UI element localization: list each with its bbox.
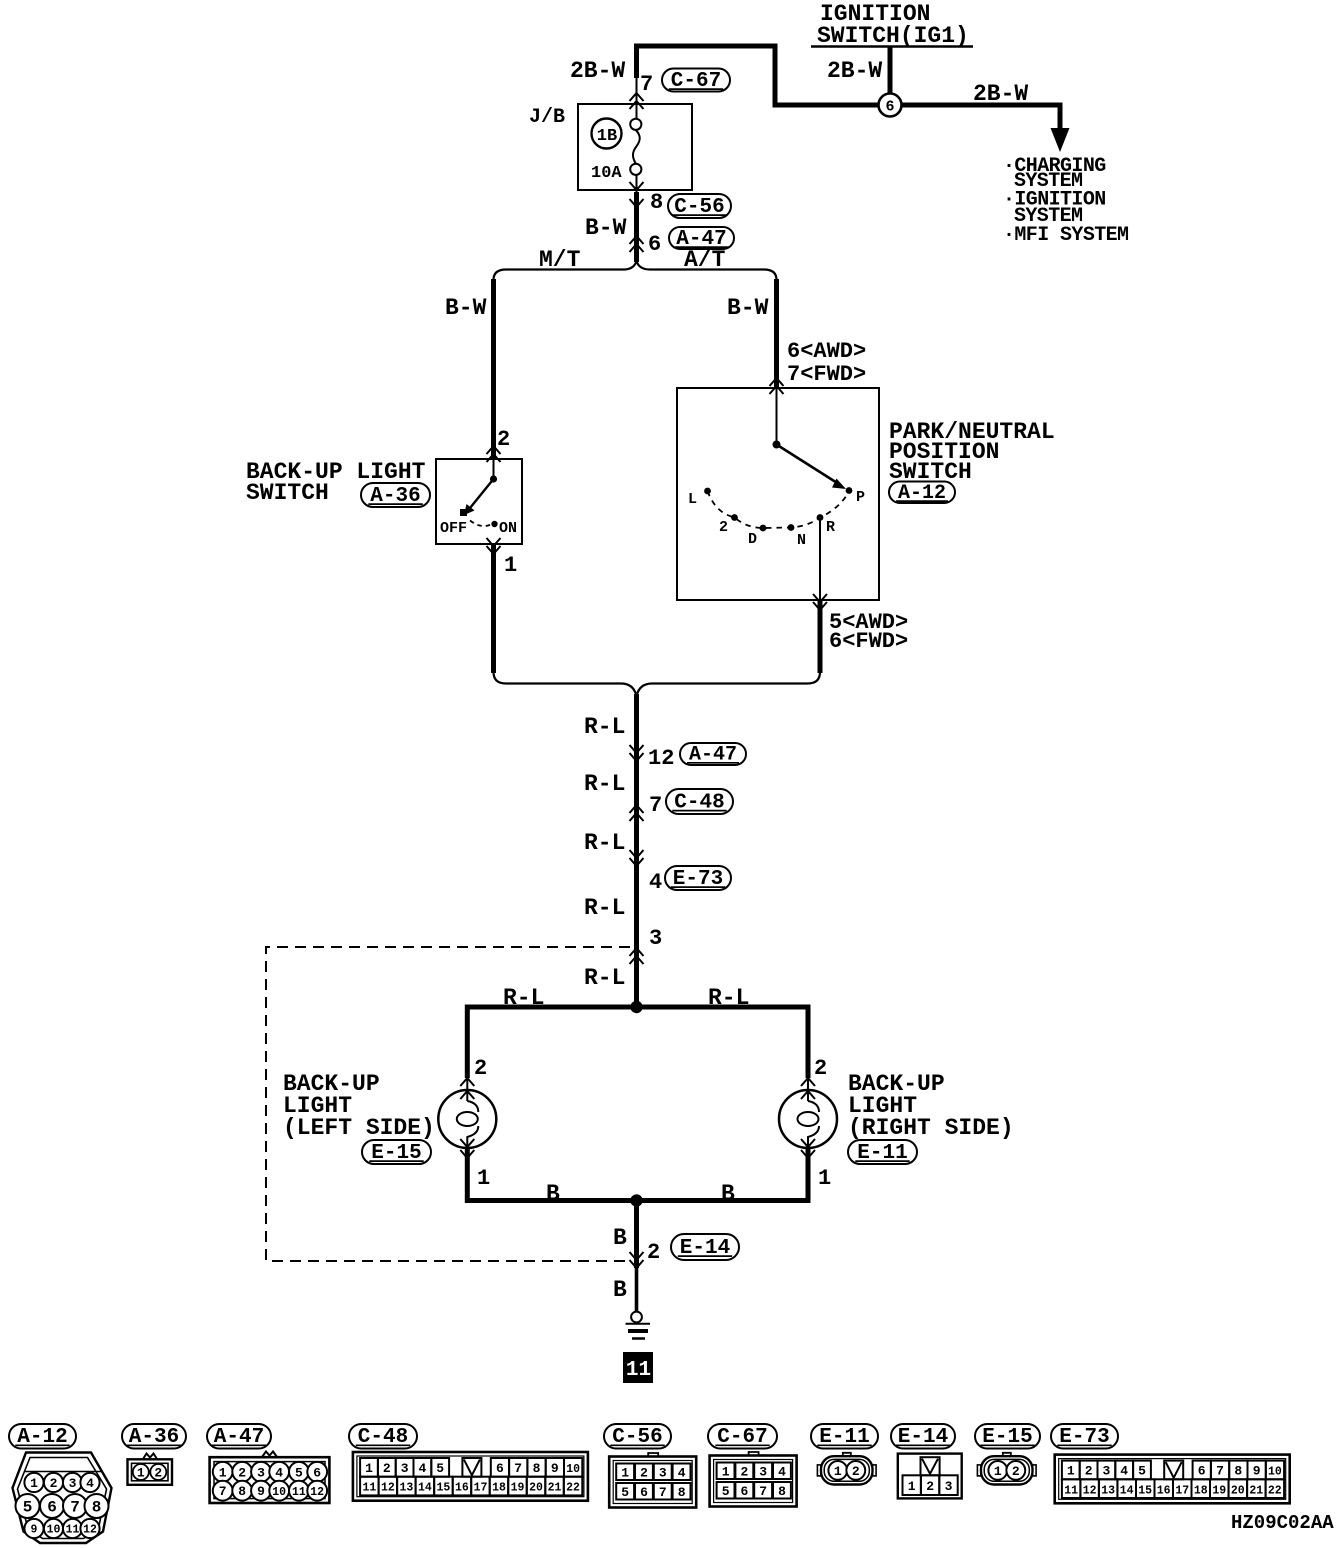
svg-text:3: 3 — [1102, 1464, 1110, 1479]
svg-text:13: 13 — [399, 1482, 413, 1495]
svg-text:7: 7 — [219, 1484, 227, 1499]
wire: node 6 left to corner, up and left to C-67 drop — [637, 46, 891, 105]
svg-text:11: 11 — [66, 1524, 80, 1537]
legend label E-11 — [811, 1424, 878, 1449]
chevrons at pin 3 joint — [630, 948, 644, 964]
legend connector E-73 (22-pin) — [1055, 1455, 1290, 1504]
chevrons entering park/neutral switch — [770, 378, 784, 394]
svg-text:1: 1 — [818, 1166, 831, 1191]
svg-text:5: 5 — [1138, 1464, 1146, 1479]
svg-text:1: 1 — [722, 1465, 730, 1480]
svg-text:20: 20 — [1231, 1484, 1245, 1497]
svg-text:2: 2 — [647, 1240, 660, 1265]
brace joining branches to R-L wire — [494, 672, 821, 696]
svg-text:22: 22 — [566, 1482, 580, 1495]
svg-text:(LEFT SIDE): (LEFT SIDE) — [283, 1115, 435, 1141]
connector E-73 — [665, 866, 731, 891]
svg-text:2B-W: 2B-W — [827, 58, 882, 84]
connector C-48 — [666, 789, 733, 814]
svg-text:1: 1 — [908, 1479, 916, 1494]
svg-text:1: 1 — [834, 1464, 842, 1479]
chevrons entering switch — [487, 446, 501, 462]
back-up light switch box A-36 — [436, 459, 522, 544]
svg-text:SWITCH: SWITCH — [246, 480, 329, 506]
svg-text:8: 8 — [778, 1484, 786, 1499]
pin 6(AWD)/7(FWD) labels — [787, 339, 866, 387]
back-up light switch name — [246, 459, 426, 506]
fuse number 1B circle — [592, 119, 622, 149]
svg-text:11: 11 — [292, 1486, 306, 1499]
svg-text:2: 2 — [719, 519, 728, 536]
svg-text:SWITCH(IG1): SWITCH(IG1) — [817, 23, 969, 49]
wire: ignition switch down to node 6 — [888, 47, 893, 105]
svg-text:10: 10 — [47, 1524, 61, 1537]
chevrons leaving switch — [487, 538, 501, 554]
svg-text:P: P — [856, 489, 865, 506]
svg-text:7<FWD>: 7<FWD> — [787, 362, 866, 387]
svg-text:R-L: R-L — [584, 965, 625, 991]
svg-text:21: 21 — [548, 1482, 562, 1495]
svg-text:3: 3 — [649, 926, 662, 951]
svg-text:11: 11 — [1064, 1484, 1078, 1497]
svg-text:1: 1 — [1067, 1464, 1075, 1479]
svg-text:R-L: R-L — [584, 895, 625, 921]
legend label E-73 — [1051, 1424, 1118, 1449]
chevrons entering left lamp — [460, 1078, 474, 1086]
junction block J/B box — [578, 104, 692, 190]
legend connector A-36 (2-pin) — [128, 1454, 173, 1485]
svg-text:6: 6 — [496, 1461, 504, 1476]
svg-text:4: 4 — [275, 1465, 283, 1480]
destination systems list — [1003, 155, 1129, 247]
ground point 11 marker — [623, 1352, 653, 1383]
connector C-56 — [668, 194, 731, 219]
svg-text:16: 16 — [1157, 1484, 1171, 1497]
svg-text:14: 14 — [1120, 1484, 1134, 1497]
svg-text:4: 4 — [649, 870, 662, 895]
connector A-47 (R-L) — [680, 743, 746, 767]
svg-text:8: 8 — [650, 190, 663, 215]
svg-text:B-W: B-W — [445, 295, 487, 321]
svg-text:2: 2 — [1012, 1464, 1020, 1479]
connector label E-15 — [362, 1140, 431, 1165]
svg-text:6: 6 — [47, 1499, 57, 1517]
svg-text:2: 2 — [740, 1465, 748, 1480]
legend connector A-47 (12-pin) — [210, 1452, 330, 1504]
svg-text:10A: 10A — [591, 164, 622, 183]
svg-text:12: 12 — [83, 1524, 97, 1537]
chevrons leaving J/B — [630, 182, 644, 190]
svg-text:·MFI SYSTEM: ·MFI SYSTEM — [1003, 224, 1129, 247]
fuse element (terminals and S-link) — [630, 119, 641, 175]
svg-text:B: B — [613, 1277, 627, 1303]
svg-text:12: 12 — [648, 746, 674, 771]
wire: J/B down to M/T-A/T split (thick B-W) — [634, 192, 639, 262]
svg-text:6: 6 — [885, 99, 894, 116]
svg-text:20: 20 — [529, 1482, 543, 1495]
svg-text:3: 3 — [401, 1461, 409, 1476]
svg-text:3: 3 — [659, 1466, 667, 1481]
svg-text:2: 2 — [852, 1464, 860, 1479]
svg-text:1B: 1B — [597, 127, 617, 146]
legend label C-67 — [708, 1424, 777, 1449]
svg-text:2: 2 — [1085, 1464, 1093, 1479]
svg-text:12: 12 — [310, 1486, 324, 1499]
svg-text:1: 1 — [621, 1466, 629, 1481]
wire: park/neutral switch down to joining brace — [818, 600, 823, 673]
connector C-67 — [662, 69, 730, 93]
chevrons at E-14 — [630, 1252, 644, 1268]
dashed harness boundary box — [266, 947, 630, 1261]
legend label A-12 — [9, 1424, 76, 1449]
svg-text:6: 6 — [648, 232, 661, 257]
svg-text:7: 7 — [1216, 1464, 1224, 1479]
left lamp name — [283, 1071, 435, 1141]
svg-text:21: 21 — [1249, 1484, 1263, 1497]
wire: E-14 to ground — [635, 1268, 639, 1312]
svg-text:5: 5 — [621, 1485, 629, 1500]
svg-text:9: 9 — [1253, 1464, 1261, 1479]
svg-text:22: 22 — [1268, 1484, 1282, 1497]
back-up light switch internal contact — [460, 459, 498, 527]
brace splitting M/T and A/T branches — [494, 261, 777, 280]
legend label A-47 — [207, 1424, 271, 1449]
legend label C-56 — [604, 1424, 671, 1449]
chevrons leaving left lamp — [460, 1139, 474, 1147]
chevrons at E-73 pin 4 — [630, 850, 644, 866]
wire: fuse to box bottom (thin) — [636, 175, 638, 192]
svg-text:8: 8 — [678, 1485, 686, 1500]
wire: node 6 right then down with arrow to systems — [890, 105, 1060, 130]
wire: A/T branch B-W down to park/neutral switch — [774, 279, 779, 388]
svg-text:3: 3 — [759, 1465, 767, 1480]
svg-text:R-L: R-L — [503, 985, 544, 1011]
svg-text:2: 2 — [50, 1476, 58, 1491]
svg-text:15: 15 — [1138, 1484, 1152, 1497]
svg-text:4: 4 — [778, 1465, 786, 1480]
chevrons entering right lamp — [801, 1078, 815, 1086]
svg-text:4: 4 — [86, 1476, 94, 1491]
svg-text:2: 2 — [640, 1466, 648, 1481]
wire: lamp loop top rail R-L — [467, 1007, 808, 1078]
junction node (B to ground) — [630, 1194, 642, 1206]
svg-text:2B-W: 2B-W — [570, 58, 625, 84]
wire: M/T branch B-W down to back-up light switch — [491, 279, 496, 459]
node 6 (splice) — [879, 94, 902, 117]
legend label A-36 — [122, 1424, 186, 1449]
svg-text:2: 2 — [474, 1056, 487, 1081]
svg-text:11: 11 — [362, 1482, 376, 1495]
connector label E-11 — [848, 1140, 917, 1165]
svg-text:8: 8 — [92, 1499, 102, 1517]
legend connector E-15 (2-pin oval) — [977, 1453, 1036, 1485]
ignition switch (IG1) source label — [811, 1, 973, 49]
svg-text:ON: ON — [499, 520, 517, 537]
svg-text:L: L — [688, 491, 697, 508]
svg-text:3: 3 — [945, 1479, 953, 1494]
svg-text:10: 10 — [1268, 1466, 1282, 1479]
svg-text:6: 6 — [740, 1484, 748, 1499]
svg-text:4: 4 — [678, 1466, 686, 1481]
connector A-47 — [669, 227, 734, 251]
svg-text:18: 18 — [492, 1482, 506, 1495]
legend label E-14 — [891, 1424, 955, 1449]
right lamp name — [848, 1071, 1014, 1141]
svg-text:15: 15 — [436, 1482, 450, 1495]
svg-text:2: 2 — [926, 1479, 934, 1494]
svg-text:1: 1 — [219, 1465, 227, 1480]
svg-text:7: 7 — [514, 1461, 522, 1476]
chevrons leaving right lamp — [801, 1139, 815, 1147]
svg-text:7: 7 — [640, 72, 653, 97]
connector chevrons at C-67 — [630, 93, 644, 109]
chevrons at C-48 — [630, 805, 644, 821]
svg-text:B: B — [613, 1225, 627, 1251]
svg-text:19: 19 — [511, 1482, 525, 1495]
chevrons leaving park/neutral switch — [813, 594, 827, 610]
svg-text:7: 7 — [759, 1484, 767, 1499]
legend connector E-11 (2-pin oval) — [817, 1453, 876, 1485]
svg-text:B: B — [546, 1181, 560, 1207]
svg-text:12: 12 — [381, 1482, 395, 1495]
svg-text:19: 19 — [1212, 1484, 1226, 1497]
legend connector C-48 (22-pin) — [353, 1452, 588, 1501]
svg-text:14: 14 — [418, 1482, 432, 1495]
svg-text:(RIGHT SIDE): (RIGHT SIDE) — [848, 1115, 1014, 1141]
svg-text:10: 10 — [566, 1463, 580, 1476]
svg-text:3: 3 — [257, 1465, 265, 1480]
svg-text:R-L: R-L — [584, 771, 625, 797]
back-up light bulb (right side) — [779, 1078, 837, 1148]
svg-text:J/B: J/B — [529, 106, 565, 129]
svg-text:8: 8 — [238, 1484, 246, 1499]
svg-text:4: 4 — [1120, 1464, 1128, 1479]
legend connector A-12 (12-pin round) — [13, 1453, 112, 1544]
svg-text:R-L: R-L — [584, 714, 625, 740]
svg-text:B-W: B-W — [727, 295, 769, 321]
svg-text:9: 9 — [31, 1524, 38, 1537]
svg-text:7: 7 — [659, 1485, 667, 1500]
park/neutral position switch name — [889, 419, 1055, 485]
arrowhead to charging/ignition/MFI systems — [1051, 128, 1070, 152]
svg-text:2: 2 — [383, 1461, 391, 1476]
svg-text:17: 17 — [1175, 1484, 1189, 1497]
svg-text:9: 9 — [257, 1484, 265, 1499]
gear position letters — [688, 489, 865, 549]
svg-text:1: 1 — [994, 1464, 1002, 1479]
svg-text:2: 2 — [814, 1056, 827, 1081]
wire: R contact down inside box — [819, 519, 821, 600]
svg-text:R-L: R-L — [584, 830, 625, 856]
svg-text:5: 5 — [23, 1499, 33, 1517]
legend label C-48 — [349, 1424, 417, 1449]
chevrons at A-47 — [630, 236, 644, 252]
svg-text:2: 2 — [238, 1465, 246, 1480]
svg-text:R-L: R-L — [708, 985, 749, 1011]
svg-text:3: 3 — [69, 1476, 77, 1491]
svg-text:6: 6 — [1198, 1464, 1206, 1479]
wire: R-L main feed down to lamp loop — [634, 694, 639, 1007]
svg-text:1: 1 — [30, 1476, 38, 1491]
svg-text:1: 1 — [504, 553, 517, 578]
svg-text:1: 1 — [137, 1466, 145, 1481]
connector label A-12 — [889, 482, 955, 505]
svg-text:5: 5 — [722, 1484, 730, 1499]
pin 5(AWD)/6(FWD) labels — [829, 610, 908, 654]
svg-text:2: 2 — [497, 427, 510, 452]
svg-text:9: 9 — [551, 1461, 559, 1476]
svg-text:16: 16 — [455, 1482, 469, 1495]
svg-text:5: 5 — [295, 1465, 303, 1480]
svg-text:8: 8 — [533, 1461, 541, 1476]
connector E-14 — [671, 1234, 739, 1260]
ground symbol — [626, 1312, 651, 1339]
svg-text:6: 6 — [313, 1465, 321, 1480]
svg-text:2B-W: 2B-W — [973, 81, 1028, 107]
svg-text:2: 2 — [154, 1466, 162, 1481]
wire: switch down to joining brace — [491, 544, 496, 673]
svg-text:R: R — [826, 519, 835, 536]
junction node (R-L split to both lamps) — [630, 1001, 642, 1013]
svg-text:N: N — [797, 532, 806, 549]
legend connector C-56 (8-pin) — [609, 1453, 696, 1508]
park/neutral switch internals — [704, 388, 852, 531]
chevrons at A-47 pin 12 — [630, 745, 644, 761]
legend connector E-14 (3-pin) — [898, 1454, 962, 1499]
svg-text:OFF: OFF — [440, 520, 467, 537]
svg-text:8: 8 — [1234, 1464, 1242, 1479]
back-up light bulb (left side) — [438, 1078, 496, 1148]
park/neutral position switch box A-12 — [677, 388, 879, 600]
legend connector C-67 (8-pin) — [710, 1452, 797, 1507]
svg-text:18: 18 — [1194, 1484, 1208, 1497]
svg-text:B: B — [721, 1181, 735, 1207]
svg-text:7: 7 — [649, 793, 662, 818]
svg-text:D: D — [748, 531, 757, 548]
svg-text:6: 6 — [640, 1485, 648, 1500]
svg-text:6<FWD>: 6<FWD> — [829, 629, 908, 654]
svg-text:10: 10 — [272, 1486, 286, 1499]
legend label E-15 — [975, 1424, 1040, 1449]
wire: B down from loop to E-14 — [634, 1201, 639, 1269]
svg-text:13: 13 — [1101, 1484, 1115, 1497]
wire: lamp loop bottom rail B — [467, 1148, 808, 1201]
svg-text:5: 5 — [436, 1461, 444, 1476]
svg-text:HZ09C02AA: HZ09C02AA — [1231, 1512, 1334, 1534]
svg-text:6<AWD>: 6<AWD> — [787, 339, 866, 364]
svg-text:1: 1 — [477, 1166, 490, 1191]
wire: C-67 into J/B fuse (thin) — [636, 78, 638, 119]
svg-text:1: 1 — [365, 1461, 373, 1476]
svg-text:B-W: B-W — [585, 215, 627, 241]
svg-text:11: 11 — [626, 1359, 651, 1382]
svg-text:7: 7 — [70, 1499, 80, 1517]
svg-text:4: 4 — [418, 1461, 426, 1476]
svg-text:17: 17 — [474, 1482, 488, 1495]
svg-text:12: 12 — [1083, 1484, 1097, 1497]
connector label A-36 — [361, 483, 430, 508]
